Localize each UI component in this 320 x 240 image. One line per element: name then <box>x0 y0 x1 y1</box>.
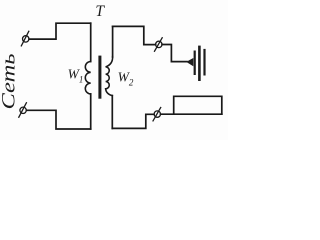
terminal bottom-left <box>19 103 27 117</box>
terminal bottom-right <box>153 108 161 121</box>
load box <box>174 96 222 114</box>
winding W1 <box>85 62 90 94</box>
transformer core <box>98 56 101 99</box>
svg-text:T: T <box>95 3 105 20</box>
plug bar 3 <box>203 49 205 76</box>
wire top-right: terminal to plug <box>162 45 187 62</box>
svg-text:Сеть: Сеть <box>0 53 19 109</box>
wire bottom-right: terminal to load box <box>161 113 222 115</box>
wire W1 top lead <box>90 23 92 61</box>
wire top-right: transformer to terminal <box>113 26 156 44</box>
wire W1 bottom lead <box>90 94 92 129</box>
wire top-left: terminal to transformer <box>29 23 91 39</box>
terminal top-left <box>21 31 29 46</box>
wire W2 top lead <box>112 26 114 57</box>
plug contact triangle <box>186 58 193 66</box>
svg-text:W2: W2 <box>118 69 134 87</box>
svg-text:W1: W1 <box>68 67 84 85</box>
terminal top-right <box>155 38 163 51</box>
plug bar 2 <box>198 46 201 81</box>
wire bottom-right: transformer to terminal <box>112 114 154 128</box>
plug bar 1 <box>194 51 196 76</box>
wire W2 bottom lead <box>111 96 113 129</box>
wire bottom-left: transformer to terminal <box>27 110 91 129</box>
winding W2 <box>106 57 113 96</box>
